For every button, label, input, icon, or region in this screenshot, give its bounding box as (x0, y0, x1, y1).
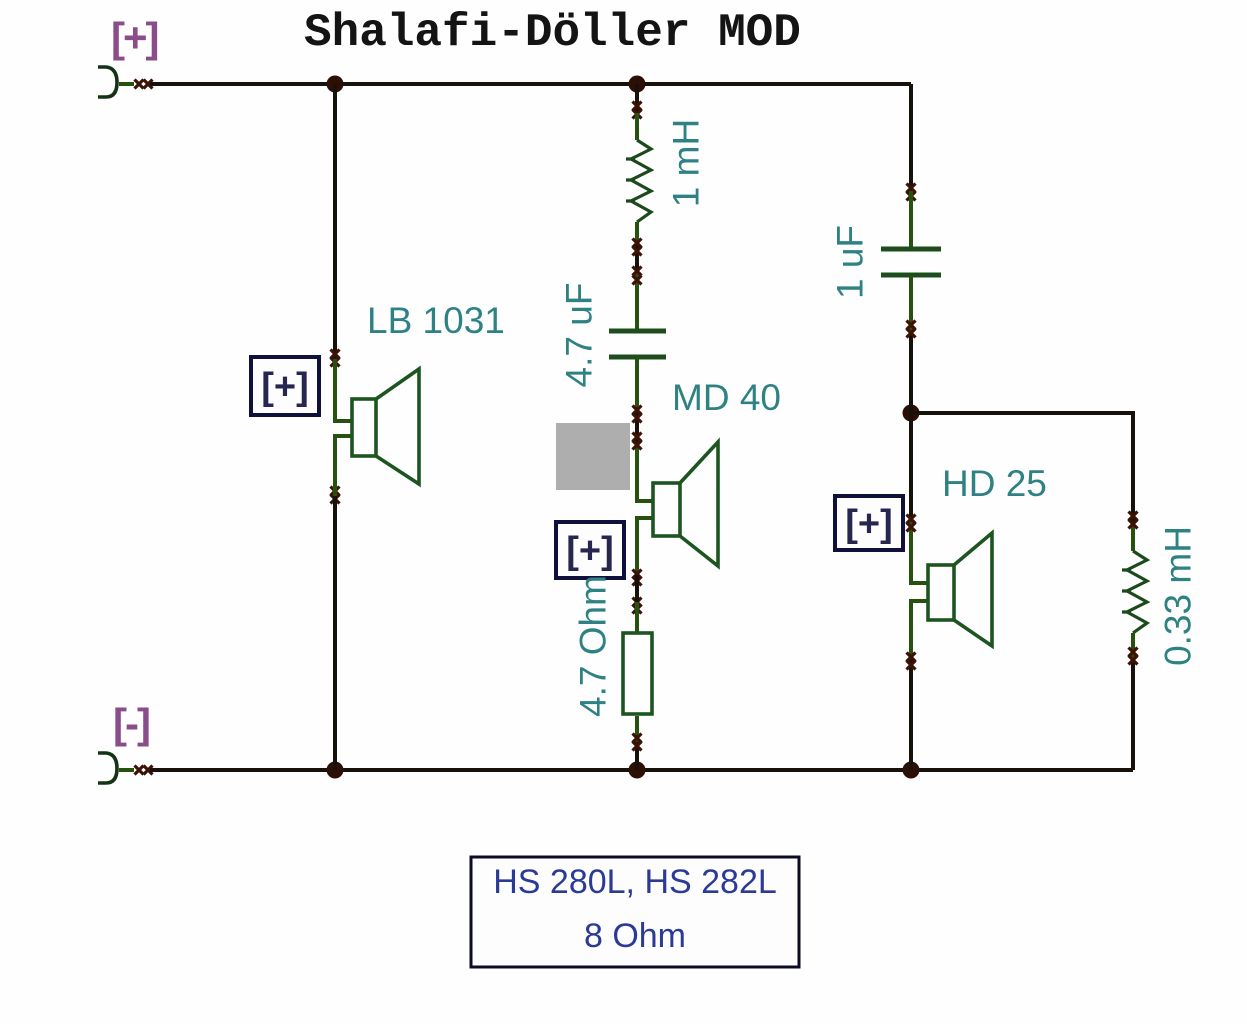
wire lead to C2 (909, 191, 913, 249)
[+] polarity box MD 40 (556, 522, 624, 578)
svg-text:HS 280L, HS 282L: HS 280L, HS 282L (493, 863, 777, 901)
wire C1 to MD40 (637, 357, 653, 575)
wire lead to L1 (635, 113, 639, 140)
pin marks below MD40 (633, 570, 642, 614)
speaker LB 1031 (352, 369, 419, 484)
svg-text:[+]: [+] (845, 503, 893, 545)
wire middle branch top (635, 84, 639, 113)
inductor L1 1 mH (626, 140, 651, 222)
pin marks at [+] terminal (135, 80, 153, 89)
pin mark below R1 (633, 734, 642, 751)
[+] polarity box LB 1031 (251, 357, 319, 415)
junction tweeter node (903, 405, 920, 422)
gray block (556, 423, 630, 490)
pin mark above L1 (633, 102, 642, 119)
svg-text:0.33 mH: 0.33 mH (1158, 526, 1199, 666)
svg-text:4.7 Ohm: 4.7 Ohm (573, 575, 614, 717)
junction top-left node (327, 76, 344, 93)
pin marks left branch (331, 350, 340, 504)
capacitor C1 4.7 uF (609, 331, 666, 357)
svg-text:1 mH: 1 mH (666, 119, 707, 207)
wire right branch top (909, 84, 913, 191)
pin mark above L2 (1129, 512, 1138, 529)
svg-text:[+]: [+] (261, 366, 309, 408)
pin marks between L1 and C1 (633, 239, 642, 285)
svg-text:4.7 uF: 4.7 uF (559, 283, 600, 388)
pin mark below L2 (1129, 648, 1138, 665)
wire C2 to tweeter node (909, 275, 913, 413)
resistor R1 4.7 Ohm (623, 633, 652, 714)
pin marks HD25 (907, 515, 916, 670)
inductor L2 0.33 mH (1122, 551, 1147, 633)
wire bottom rail (150, 768, 1133, 772)
junction bottom-right node (903, 762, 920, 779)
speaker MD 40 (653, 442, 718, 566)
wire left branch lower (333, 496, 337, 770)
terminal [-] (98, 753, 134, 783)
wire node to L2 branch (911, 413, 1133, 551)
svg-text:1 uF: 1 uF (830, 225, 871, 299)
junction bottom-middle node (629, 762, 646, 779)
junction top-middle node (629, 76, 646, 93)
wire left branch speaker leads (335, 359, 352, 496)
wire node to HD25 (911, 413, 928, 770)
junction bottom-left node (327, 762, 344, 779)
wire L2 to bottom rail (1131, 633, 1135, 770)
pin marks at [-] terminal (135, 766, 153, 775)
speaker HD 25 (928, 533, 992, 646)
svg-text:[+]: [+] (111, 14, 158, 61)
capacitor C2 1 uF (881, 249, 941, 275)
pin mark above C2 (907, 184, 916, 201)
wire top rail (150, 82, 911, 86)
pin mark below C2 (907, 321, 916, 338)
svg-text:[+]: [+] (566, 530, 614, 572)
svg-text:[-]: [-] (113, 700, 149, 747)
wire L1 to C1 (635, 222, 639, 331)
annotation box HS 280L, HS 282L / 8 Ohm (471, 857, 799, 967)
wire R1 to bottom rail (635, 716, 639, 770)
svg-text:Shalafi-Döller MOD: Shalafi-Döller MOD (304, 7, 801, 59)
svg-text:LB 1031: LB 1031 (367, 300, 505, 341)
[+] polarity box HD 25 (835, 496, 903, 550)
terminal [+] (98, 67, 134, 97)
pin marks above MD40 (633, 406, 642, 450)
svg-text:8 Ohm: 8 Ohm (584, 917, 686, 955)
svg-text:MD 40: MD 40 (672, 377, 781, 418)
wire MD40 to R1 (635, 575, 639, 632)
svg-text:HD 25: HD 25 (942, 463, 1047, 504)
wire left branch upper (333, 84, 337, 359)
